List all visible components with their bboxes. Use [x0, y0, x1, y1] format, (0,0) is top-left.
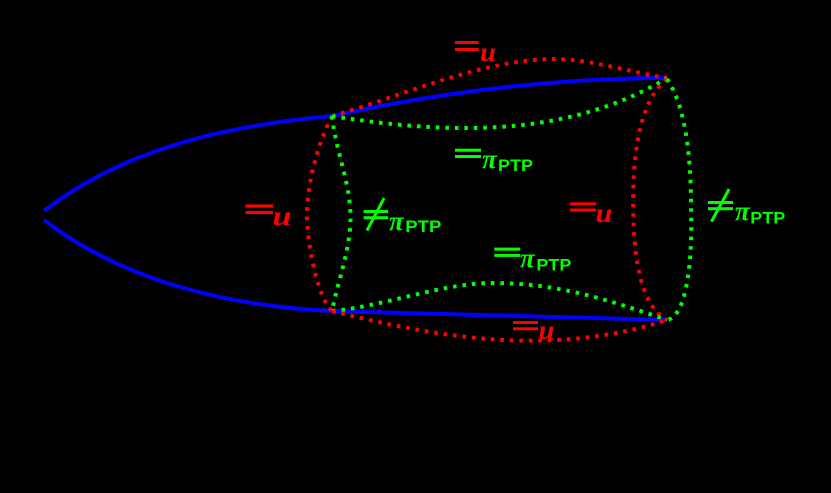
svg-text:PTP: PTP	[498, 156, 533, 175]
wire: green dotted arc (bottom, bulging up) lower-middle to lower-right	[332, 283, 667, 320]
svg-text:π: π	[520, 243, 536, 273]
svg-text:u: u	[480, 37, 496, 67]
svg-text:π: π	[389, 206, 405, 236]
svg-text:u: u	[273, 201, 292, 231]
node label =_u (bottom, red)	[513, 315, 555, 345]
wire: blue solid edge from left tip to lower-middle node	[44, 220, 332, 311]
svg-text:PTP: PTP	[750, 209, 785, 228]
svg-text:PTP: PTP	[405, 217, 441, 236]
wire: red dotted arc (left lens, bulging left) upper-middle to lower-middle	[307, 116, 332, 311]
node label =_u (left, red)	[246, 201, 292, 231]
node label =_piPTP (top middle, green)	[455, 144, 533, 175]
wire: red dotted arc (right lens, bulging left) upper-right to lower-right	[633, 79, 667, 320]
svg-text:PTP: PTP	[536, 256, 571, 275]
svg-text:π: π	[482, 144, 498, 174]
svg-text:u: u	[596, 198, 613, 228]
node label =_piPTP (bottom middle, green)	[494, 243, 571, 275]
node label =_u (top, red)	[455, 37, 496, 67]
node label !=_piPTP (right lens, green)	[708, 189, 785, 228]
svg-text:u: u	[539, 315, 555, 345]
wire: blue solid edge from upper-middle node to upper-right node	[332, 78, 667, 116]
wire: green dotted arc (left lens, bulging right) upper-middle to lower-middle	[332, 116, 351, 311]
node label =_u (right, red)	[570, 198, 613, 228]
wire: blue solid edge from left tip to upper-middle node	[44, 116, 332, 211]
wire: blue solid edge from lower-middle node to lower-right node	[332, 311, 667, 320]
wire: green dotted arc (right lens, bulging right) upper-right to lower-right	[667, 79, 691, 320]
svg-text:π: π	[735, 196, 751, 226]
node label !=_piPTP (left lens, green)	[364, 198, 442, 236]
wire: red dotted arc (top, bulging up) upper-middle to upper-right	[332, 59, 667, 116]
wire: green dotted arc (top, bulging down) upper-middle to upper-right	[332, 78, 667, 128]
wire: red dotted arc (bottom, bulging down) lower-middle to lower-right	[332, 311, 667, 341]
